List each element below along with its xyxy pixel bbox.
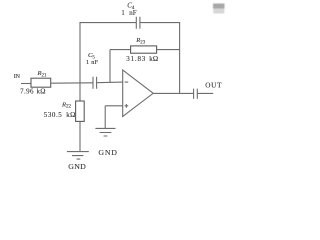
wire R23 right — [157, 49, 180, 51]
wire non-inverting input — [105, 105, 123, 107]
capacitor C5 — [93, 77, 97, 89]
wire down to GND2 — [104, 106, 106, 129]
plus tick — [125, 104, 129, 108]
svg-text:31.83: 31.83 — [126, 55, 146, 63]
svg-text:R22: R22 — [61, 101, 72, 109]
wire to OUT — [197, 92, 213, 94]
gray watermark blob top right — [213, 4, 225, 14]
svg-text:kΩ: kΩ — [149, 55, 158, 63]
resistor R21 — [31, 78, 51, 87]
svg-text:kΩ: kΩ — [37, 87, 46, 95]
capacitor C4 — [136, 17, 140, 29]
wire R23 left — [110, 49, 131, 51]
svg-text:GND: GND — [68, 162, 86, 171]
wire C5 to op-amp inverting input — [97, 81, 123, 84]
wire top right — [140, 22, 180, 24]
resistor R23 — [131, 46, 157, 53]
svg-text:1: 1 — [121, 10, 124, 17]
svg-text:1: 1 — [86, 59, 89, 66]
wire op-amp output — [153, 92, 193, 94]
svg-text:530.5: 530.5 — [44, 111, 63, 119]
wire R22 to ground — [79, 121, 81, 151]
ground GND2 — [95, 128, 115, 136]
svg-text:7.96: 7.96 — [20, 87, 34, 95]
wire node A up — [79, 23, 81, 84]
svg-text:IN: IN — [14, 74, 21, 80]
wire top left — [79, 22, 136, 24]
resistor R22 — [76, 101, 85, 121]
wire R23 left vertical — [109, 50, 111, 83]
wire IN stub — [21, 83, 31, 85]
svg-text:nF: nF — [91, 59, 98, 66]
ground GND1 — [67, 152, 89, 160]
svg-text:R23: R23 — [135, 37, 146, 45]
wire R21 to node A to C5 — [51, 82, 93, 84]
svg-text:nF: nF — [129, 10, 136, 17]
capacitor output coupling — [194, 89, 198, 99]
svg-text:R21: R21 — [37, 70, 48, 78]
op-amp U1 — [123, 70, 154, 117]
svg-text:OUT: OUT — [205, 81, 222, 89]
wire node A down to R22 — [79, 83, 81, 101]
svg-text:kΩ: kΩ — [66, 111, 75, 119]
svg-text:GND: GND — [98, 148, 117, 157]
wire feedback right vertical — [179, 23, 181, 94]
minus tick — [125, 81, 129, 83]
